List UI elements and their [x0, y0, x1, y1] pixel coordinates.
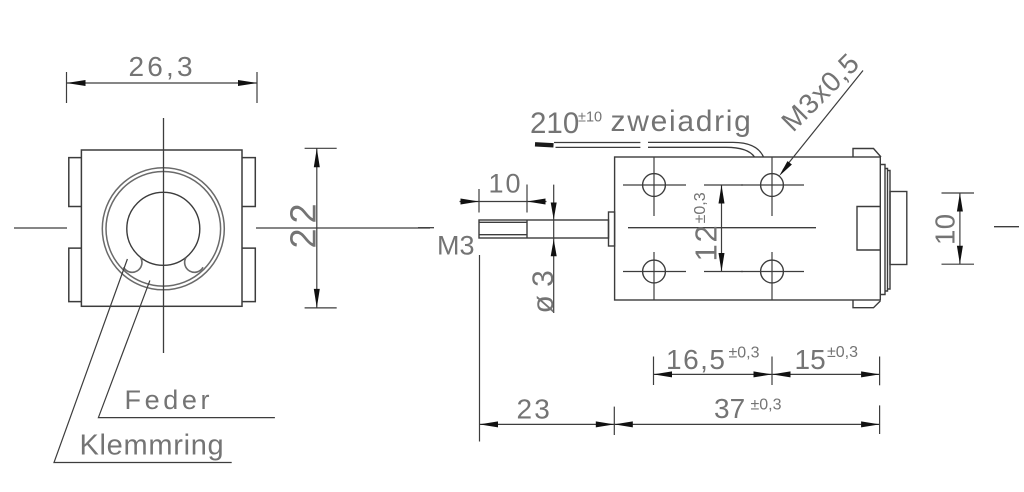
front view tab top-left	[69, 158, 82, 207]
dimension ø3	[553, 185, 555, 313]
svg-text:±0,3: ±0,3	[751, 397, 782, 414]
dimension 22	[305, 148, 337, 308]
front view horizontal centerline right segment	[256, 227, 430, 229]
svg-text:±10: ±10	[578, 110, 602, 126]
svg-text:Feder: Feder	[125, 385, 214, 415]
clamp ring right ear arc	[185, 258, 203, 273]
inner rect right end	[857, 207, 880, 251]
stop washer	[609, 212, 615, 246]
bobbin outer circle	[102, 168, 224, 290]
bottom tab with chamfer	[853, 300, 880, 308]
leader M3x0,5	[783, 71, 863, 171]
front view horizontal centerline left segment	[14, 227, 67, 229]
dimension 23 and 37±0,3	[480, 405, 880, 435]
thread end line	[526, 220, 528, 238]
leader line Feder	[98, 280, 275, 417]
front view body	[81, 150, 242, 306]
dimension 10 shaft	[460, 185, 547, 213]
svg-text:ø 3: ø 3	[527, 270, 560, 313]
clamp ring left ear arc	[124, 258, 142, 273]
svg-text:M3: M3	[437, 231, 475, 261]
thread inner lines	[479, 221, 527, 223]
front view tab bottom-left	[69, 248, 82, 302]
plate 1	[880, 165, 885, 295]
leader line Klemmring	[54, 259, 232, 463]
svg-text:10: 10	[489, 169, 523, 199]
svg-text:22: 22	[283, 198, 324, 248]
svg-text:23: 23	[517, 394, 553, 425]
wires two-core	[554, 142, 764, 157]
front view vertical centerline	[163, 118, 165, 353]
top tab with chamfer	[853, 149, 881, 158]
plate 3	[888, 171, 891, 290]
dimension 12±0,3	[704, 185, 743, 272]
front view tab top-right	[242, 158, 255, 207]
wire stub (stripped end)	[535, 144, 554, 145]
hole crosshairs	[623, 157, 804, 300]
plunger circle	[127, 192, 200, 265]
side view body	[615, 157, 881, 300]
side view centerline	[418, 227, 1019, 228]
svg-text:12±0,3: 12±0,3	[689, 192, 724, 261]
svg-text:±0,3: ±0,3	[729, 345, 760, 362]
dimension 16,5±0,3 and 15±0,3	[654, 357, 880, 386]
svg-text:37: 37	[714, 393, 745, 424]
svg-text:Klemmring: Klemmring	[80, 430, 225, 462]
dimension 10 right	[942, 193, 975, 264]
end cylinder	[890, 192, 907, 265]
svg-text:±0,3: ±0,3	[827, 344, 858, 361]
svg-text:zweiadrig: zweiadrig	[611, 105, 753, 138]
svg-text:210: 210	[530, 107, 579, 140]
plate 2	[885, 169, 888, 292]
svg-text:16,5: 16,5	[666, 344, 727, 375]
svg-text:26,3: 26,3	[129, 51, 196, 82]
dimension 26,3	[67, 72, 258, 103]
mounting holes	[643, 174, 784, 283]
bobbin inner circle	[106, 172, 221, 287]
M3 extension line down	[479, 255, 481, 442]
svg-text:15: 15	[795, 344, 826, 375]
front view tab bottom-right	[242, 248, 255, 302]
svg-text:10: 10	[930, 213, 961, 245]
side view plunger shaft	[479, 149, 907, 308]
